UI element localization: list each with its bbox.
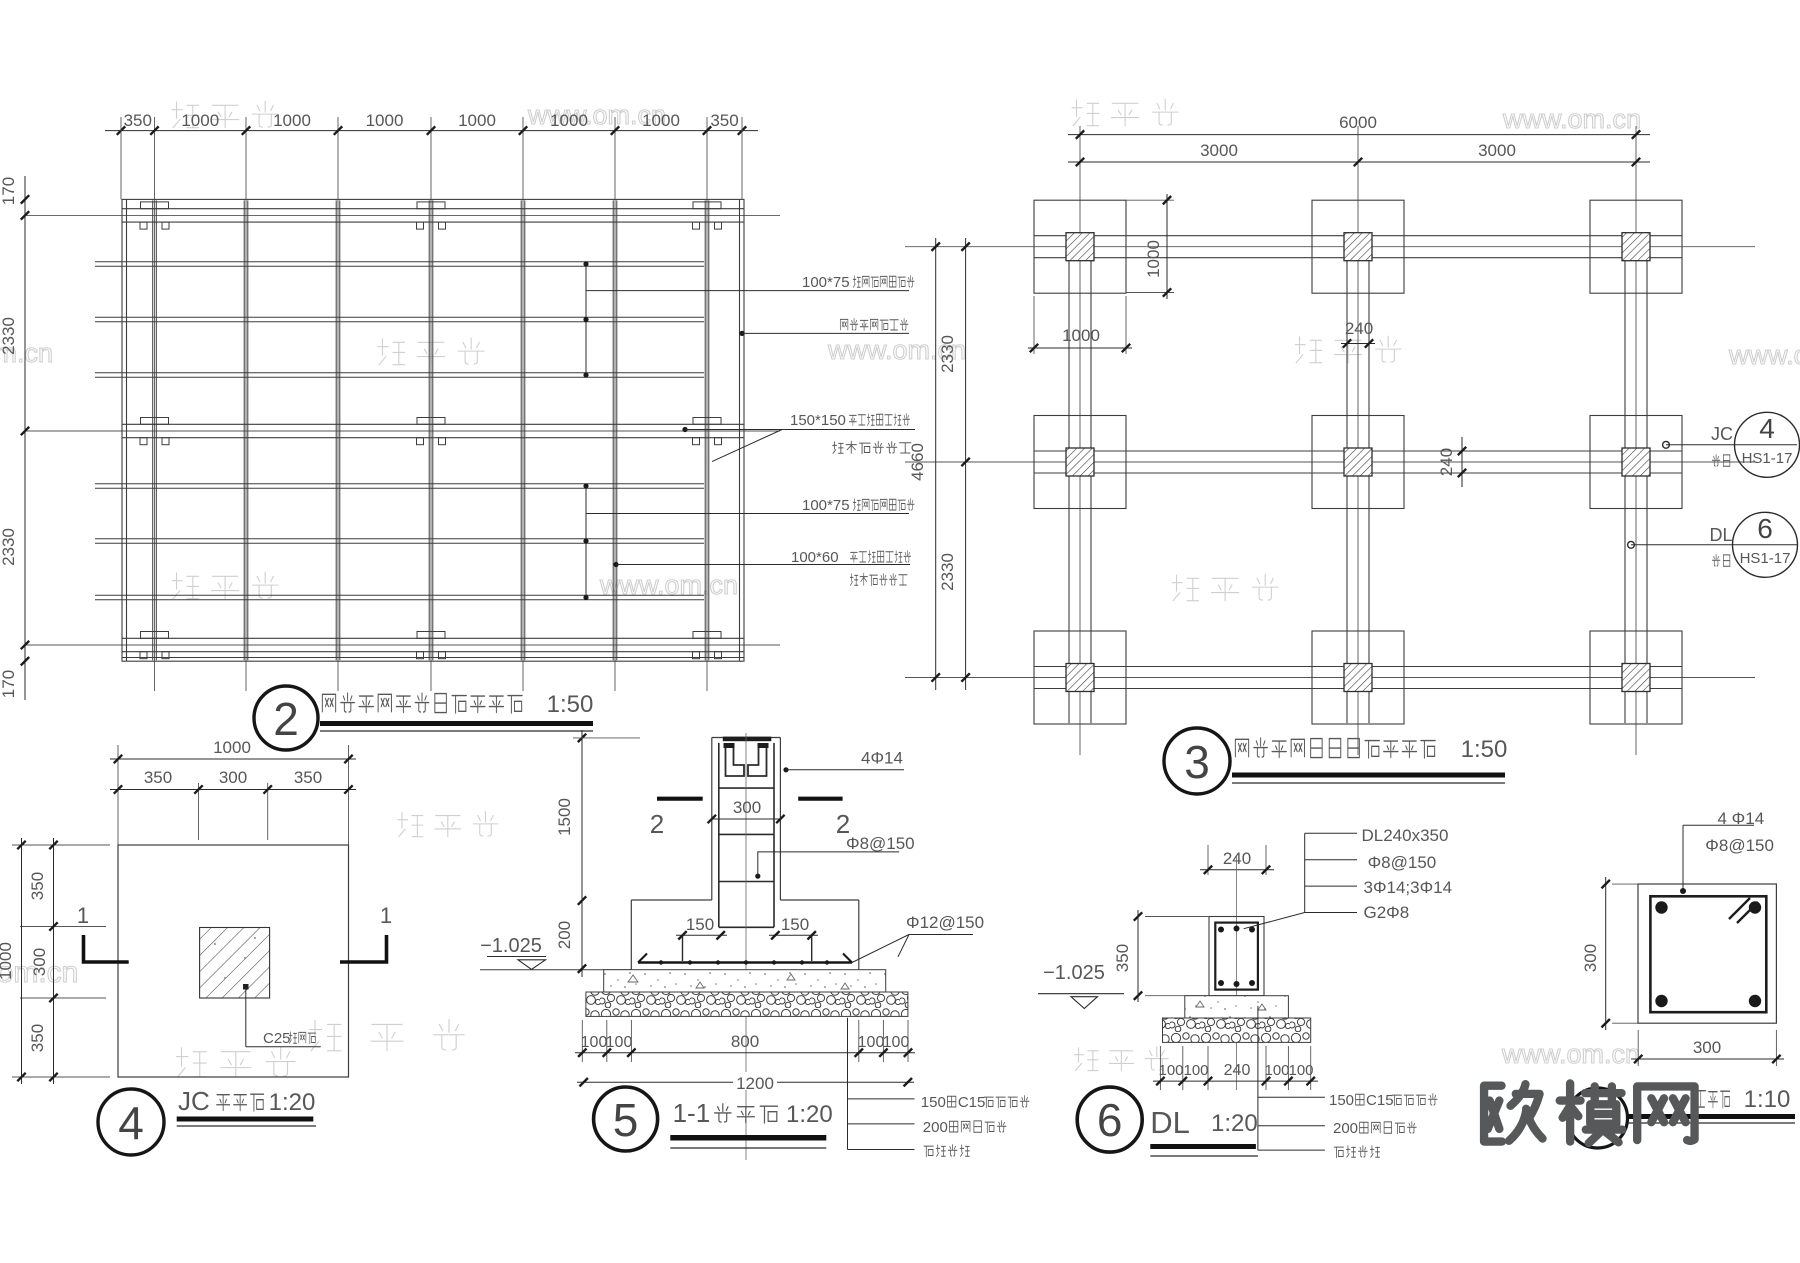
- panel3 axis lines: [905, 126, 1755, 755]
- svg-text:240: 240: [1437, 448, 1456, 476]
- svg-text:C25: C25: [263, 1030, 291, 1047]
- svg-text:1:50: 1:50: [1461, 736, 1508, 763]
- svg-text:240: 240: [1345, 319, 1373, 338]
- svg-text:4660: 4660: [908, 443, 927, 481]
- panel7 title circle 7: [1568, 1088, 1628, 1148]
- panel5 label 4phi14: [783, 767, 788, 772]
- panel7 column section outline: [1638, 884, 1776, 1023]
- svg-text:100: 100: [1288, 1062, 1313, 1079]
- svg-text:DL: DL: [1709, 525, 1732, 545]
- panel5 label phi12at150: [851, 935, 973, 964]
- svg-text:3: 3: [1184, 736, 1210, 788]
- panel5 gravel layer: [586, 992, 908, 1016]
- svg-text:C15: C15: [1366, 1092, 1394, 1109]
- panel2 leader label platform outline: [739, 331, 744, 336]
- panel3 dimension 1000 pad height: [1126, 199, 1174, 201]
- panel2 leader label 100x60 steel beam: [613, 562, 618, 567]
- panel3 title circle 3: [1164, 728, 1230, 794]
- panel2 deck outline: [122, 199, 744, 661]
- svg-text:300: 300: [219, 768, 247, 787]
- panel5 steel beam seat plate: [723, 737, 772, 742]
- svg-text:Φ12@150: Φ12@150: [906, 913, 984, 932]
- panel5 section mark 2 right: [798, 797, 842, 801]
- svg-text:4: 4: [1759, 413, 1775, 444]
- svg-text:100*75: 100*75: [802, 274, 850, 291]
- panel3 dimension 240 row2: [1461, 437, 1463, 487]
- svg-text:Φ8@150: Φ8@150: [846, 834, 915, 853]
- svg-text:−1.025: −1.025: [480, 935, 542, 957]
- panel6 leader labels top: [1304, 833, 1306, 912]
- panel2 title text: [322, 694, 335, 712]
- panel2 wood joists horizontal 100x75: [95, 262, 704, 600]
- panel6 bottom dimension: [1159, 1046, 1161, 1090]
- logo om.cn big: [1484, 1083, 1694, 1143]
- svg-text:1000: 1000: [1062, 326, 1100, 345]
- svg-text:JC: JC: [178, 1086, 210, 1116]
- svg-text:1:20: 1:20: [1211, 1110, 1258, 1137]
- panel2 horizontal axis lines: [24, 215, 780, 645]
- svg-text:100: 100: [581, 1034, 608, 1051]
- svg-text:170: 170: [0, 177, 18, 205]
- svg-text:2: 2: [273, 693, 299, 745]
- svg-text:300: 300: [30, 948, 49, 976]
- svg-text:4Φ14: 4Φ14: [861, 749, 903, 768]
- panel3 column hatched sections: [1066, 233, 1650, 692]
- svg-text:100: 100: [883, 1034, 910, 1051]
- panel3 left dimension 2330 x2: [965, 238, 967, 690]
- panel6 rebar dots: [1218, 927, 1224, 933]
- panel7 dimension 300 left: [1612, 883, 1638, 885]
- svg-text:1200: 1200: [736, 1074, 774, 1093]
- svg-text:G2Φ8: G2Φ8: [1364, 903, 1410, 922]
- svg-text:100: 100: [858, 1034, 885, 1051]
- panel3 ground beams vertical DL: [1069, 232, 1647, 723]
- panel5 title underline: [670, 1135, 826, 1141]
- svg-text:100: 100: [1264, 1062, 1289, 1079]
- panel5 column cage: [719, 743, 774, 927]
- panel7 diagonal marks: [1729, 898, 1758, 923]
- panel2 vertical axis grid lines: [155, 117, 708, 691]
- svg-text:200: 200: [923, 1119, 948, 1136]
- svg-text:1000: 1000: [550, 111, 588, 130]
- svg-text:2330: 2330: [0, 317, 18, 355]
- svg-text:1: 1: [77, 903, 89, 928]
- panel2 steel beam A 150x150: [122, 209, 744, 222]
- panel7 dimension 300 bottom: [1637, 1030, 1639, 1066]
- svg-text:www.om.cn: www.om.cn: [1728, 340, 1800, 370]
- svg-text:6000: 6000: [1339, 113, 1377, 132]
- svg-text:6: 6: [1757, 513, 1773, 544]
- panel4 dimension 1000 top: [117, 745, 119, 845]
- svg-text:240: 240: [1224, 1062, 1251, 1079]
- svg-text:300: 300: [733, 798, 761, 817]
- svg-text:800: 800: [731, 1032, 759, 1051]
- panel3 callout JC: [1663, 441, 1670, 448]
- panel6 gravel layer: [1163, 1018, 1311, 1042]
- panel6 leader notes: [1257, 1006, 1259, 1150]
- panel2 left dimension line: [24, 176, 26, 700]
- panel7 title underline: [1628, 1114, 1795, 1119]
- panel6 beam outline: [1209, 917, 1264, 996]
- svg-text:150: 150: [921, 1094, 946, 1111]
- svg-text:2330: 2330: [938, 553, 957, 591]
- panel3 title underline: [1232, 773, 1505, 778]
- svg-text:1000: 1000: [181, 111, 219, 130]
- panel6 beam stirrup: [1215, 923, 1258, 990]
- panel5 steel channel sections: [726, 745, 767, 777]
- panel4 title circle 4: [98, 1089, 164, 1155]
- panel5 label phi8at150: [755, 874, 760, 879]
- svg-text:C15: C15: [958, 1094, 986, 1111]
- panel5 left dimension 1500 200: [581, 730, 583, 977]
- panel2 leader label 100x75 wood beam lower: [585, 486, 587, 598]
- panel3 callout DL: [1628, 541, 1635, 548]
- watermark row 1: [172, 102, 199, 128]
- svg-text:100: 100: [606, 1034, 633, 1051]
- panel2 title underline: [320, 721, 593, 726]
- svg-text:1000: 1000: [642, 111, 680, 130]
- panel4 title underline: [177, 1117, 314, 1122]
- panel5 leader notes: [847, 1018, 849, 1150]
- panel3 dimension 1000 pad width: [1033, 296, 1035, 354]
- panel2 top dimension line: [105, 130, 758, 132]
- panel7 stirrup: [1650, 896, 1766, 1012]
- panel2 leader label 150x150 steel beam: [682, 427, 687, 432]
- panel2 title circle 2: [254, 686, 318, 750]
- panel4 hatched column C25: [200, 928, 270, 999]
- svg-text:www.om.cn: www.om.cn: [1502, 104, 1641, 134]
- watermark row 3: [172, 573, 199, 599]
- svg-text:4: 4: [118, 1097, 144, 1149]
- svg-text:HS1-17: HS1-17: [1740, 550, 1791, 567]
- panel5 C15 pad: [604, 970, 886, 992]
- panel5 bottom dimension 1200: [577, 1081, 914, 1083]
- svg-text:3000: 3000: [1478, 141, 1516, 160]
- svg-text:2: 2: [650, 809, 664, 839]
- svg-text:1500: 1500: [555, 798, 574, 836]
- panel5 bottom dimension row1: [581, 1020, 583, 1062]
- svg-text:350: 350: [28, 1024, 47, 1052]
- panel3 foundation pads: [1034, 200, 1682, 724]
- panel3 ground beams horizontal DL: [1034, 236, 1682, 689]
- svg-text:100*75: 100*75: [802, 497, 850, 514]
- svg-text:300: 300: [1693, 1038, 1721, 1057]
- svg-text:1000: 1000: [273, 111, 311, 130]
- panel7 rebar dots: [1655, 901, 1667, 913]
- panel5 title circle 5: [594, 1087, 658, 1151]
- panel6 centerline: [1236, 856, 1238, 1090]
- svg-text:350: 350: [294, 768, 322, 787]
- panel3 dimension 3000 3000: [1068, 161, 1650, 163]
- panel4 left dimension 350 300 350: [12, 844, 110, 846]
- svg-text:6: 6: [1097, 1094, 1123, 1146]
- svg-text:350: 350: [28, 872, 47, 900]
- watermark row 5: [177, 1048, 207, 1077]
- svg-text:Φ8@150: Φ8@150: [1705, 836, 1774, 855]
- svg-text:1000: 1000: [366, 111, 404, 130]
- svg-text:350: 350: [710, 111, 738, 130]
- svg-text:1000: 1000: [213, 738, 251, 757]
- svg-text:350: 350: [144, 768, 172, 787]
- panel4 left dimension 1000: [21, 838, 23, 1084]
- panel5 ground line: [480, 969, 631, 971]
- svg-text:100: 100: [1183, 1062, 1208, 1079]
- panel5 footing bottom rebar: [638, 961, 852, 964]
- panel5 dimension 300 column: [712, 818, 781, 820]
- svg-text:240: 240: [1223, 849, 1251, 868]
- panel4 leader C25 concrete: [243, 984, 249, 990]
- svg-text:www.om.cn: www.om.cn: [1501, 1039, 1640, 1069]
- panel2 wood joists vertical 100x60: [153, 200, 709, 660]
- panel6 C15 pad: [1185, 996, 1289, 1018]
- panel4 footing square outline: [118, 845, 349, 1077]
- svg-text:3000: 3000: [1200, 141, 1238, 160]
- svg-text:1:50: 1:50: [547, 691, 594, 718]
- panel5 dimension 150 150: [676, 934, 727, 936]
- svg-text:1:20: 1:20: [269, 1089, 316, 1116]
- svg-text:1:10: 1:10: [1744, 1086, 1791, 1113]
- svg-text:2330: 2330: [938, 335, 957, 373]
- svg-text:170: 170: [0, 670, 18, 698]
- svg-text:DL: DL: [1150, 1105, 1190, 1140]
- svg-text:150: 150: [781, 915, 809, 934]
- panel6 dimension 240 top: [1207, 845, 1209, 875]
- svg-text:150: 150: [1329, 1092, 1354, 1109]
- svg-text:JC: JC: [1711, 424, 1733, 444]
- panel5 section mark 2 left: [657, 797, 703, 801]
- panel6 title underline: [1150, 1144, 1256, 1149]
- svg-text:150: 150: [686, 915, 714, 934]
- svg-text:2330: 2330: [0, 528, 18, 566]
- svg-text:1000: 1000: [1144, 240, 1163, 278]
- panel3 dimension 240 column2: [1341, 343, 1375, 345]
- watermark row 4: [398, 812, 423, 836]
- svg-text:100*60: 100*60: [791, 549, 839, 566]
- svg-text:1000: 1000: [458, 111, 496, 130]
- svg-text:Φ8@150: Φ8@150: [1368, 853, 1437, 872]
- svg-text:1:20: 1:20: [786, 1101, 833, 1128]
- panel2 steel beam C 150x150: [122, 638, 744, 651]
- panel3 dimension 6000: [1068, 134, 1650, 136]
- panel7 title text: [1696, 1091, 1706, 1107]
- svg-text:150*150: 150*150: [790, 412, 846, 429]
- svg-text:DL240x350: DL240x350: [1362, 826, 1449, 845]
- panel5 footing outline: [631, 900, 859, 970]
- panel6 dimension 350: [1145, 916, 1209, 918]
- svg-text:200: 200: [555, 921, 574, 949]
- svg-text:1: 1: [380, 903, 392, 928]
- panel2 leader label 100x75 wood beam upper: [585, 264, 587, 375]
- svg-text:350: 350: [124, 111, 152, 130]
- panel2 column tabs: [140, 202, 722, 659]
- panel5 centerline: [745, 733, 747, 1160]
- panel5 cage bottom legs: [683, 935, 812, 961]
- svg-text:−1.025: −1.025: [1043, 962, 1105, 984]
- panel5 column outline: [712, 738, 781, 901]
- svg-text:HS1-17: HS1-17: [1742, 450, 1793, 467]
- svg-text:3Φ14;3Φ14: 3Φ14;3Φ14: [1364, 878, 1453, 897]
- panel6 title circle 6: [1077, 1087, 1142, 1152]
- panel3 left dimension 4660: [935, 238, 937, 690]
- panel3 title text: [1235, 739, 1248, 757]
- svg-text:200: 200: [1333, 1120, 1358, 1137]
- svg-text:350: 350: [1113, 944, 1132, 972]
- panel2 steel beam B 150x150: [122, 424, 744, 437]
- panel4 dimension 350 300 350: [198, 783, 200, 840]
- svg-text:100: 100: [1158, 1062, 1183, 1079]
- svg-text:5: 5: [613, 1094, 639, 1146]
- svg-text:1-1: 1-1: [673, 1098, 711, 1128]
- svg-text:1000: 1000: [0, 942, 15, 980]
- svg-text:300: 300: [1581, 944, 1600, 972]
